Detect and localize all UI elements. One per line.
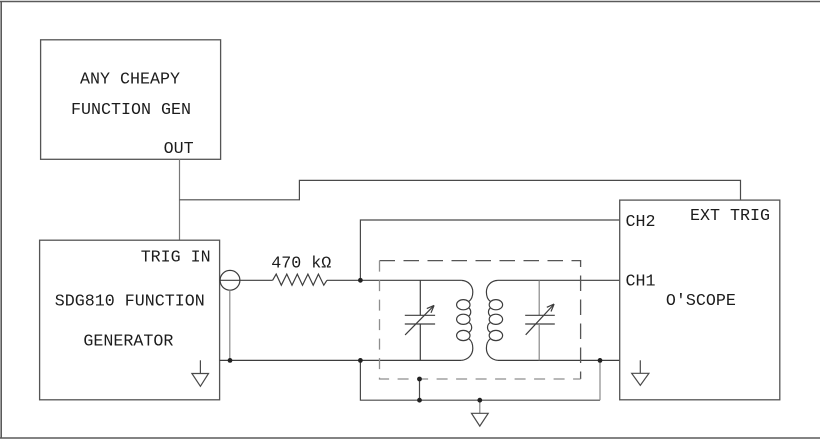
svg-text:GENERATOR: GENERATOR [83, 332, 173, 351]
wire CH2 tap [360, 220, 619, 280]
junction dot at connector shield [228, 358, 233, 363]
ground symbol inside SDG810 box [192, 360, 209, 386]
wire tank top right to CH1 [498, 279, 620, 281]
svg-text:CH1: CH1 [626, 273, 656, 292]
svg-text:TRIG IN: TRIG IN [141, 249, 211, 268]
ground symbol inside scope box [632, 360, 649, 385]
wire tank top left [360, 279, 461, 281]
transformer T1 primary winding [457, 280, 473, 360]
junction dot shield edge [417, 377, 422, 382]
wire OUT to TRIG IN [179, 159, 181, 240]
shield enclosure (dashed box) top and right edges [380, 261, 581, 379]
wire connector shield drop [229, 290, 231, 360]
capacitor C2 (variable) [525, 280, 555, 360]
junction dot tank bottom right [598, 358, 603, 363]
wire signal out [220, 279, 273, 281]
output connector circle [220, 270, 240, 290]
wire resistor to node A [327, 279, 361, 281]
svg-text:O'SCOPE: O'SCOPE [666, 292, 736, 311]
wire shield tap [419, 379, 421, 400]
svg-text:EXT TRIG: EXT TRIG [690, 207, 770, 226]
wire OUT branch to EXT TRIG [180, 180, 741, 200]
svg-text:470 kΩ: 470 kΩ [271, 255, 331, 274]
svg-text:CH2: CH2 [626, 213, 656, 232]
generator box U2 "SDG810 FUNCTION GENERATOR" [40, 240, 220, 400]
transformer T1 secondary winding [486, 280, 502, 360]
oscilloscope box U3 "O'SCOPE" [620, 200, 780, 400]
wire tank bottom right [498, 359, 620, 361]
junction dot shield tap on ground wire [417, 398, 422, 403]
wire ground return right riser [599, 360, 601, 400]
function generator box U1 "ANY CHEAPY FUNCTION GEN" [41, 40, 221, 160]
wire tank bottom left [220, 359, 462, 361]
svg-text:ANY CHEAPY: ANY CHEAPY [80, 71, 180, 90]
capacitor C1 (variable) [405, 280, 435, 360]
junction dot ground stem [477, 398, 482, 403]
shield enclosure (dashed box) left and bottom edges [380, 261, 581, 379]
svg-text:OUT: OUT [164, 140, 194, 159]
resistor R1 470 kOhm [273, 274, 327, 285]
svg-text:FUNCTION GEN: FUNCTION GEN [71, 101, 191, 120]
ground symbol bottom center [472, 400, 489, 426]
svg-text:SDG810 FUNCTION: SDG810 FUNCTION [55, 293, 205, 312]
junction node A (resistor/CH2/tank) [358, 278, 363, 283]
junction dot tank bottom left [358, 358, 363, 363]
wire ground return U [360, 360, 600, 400]
